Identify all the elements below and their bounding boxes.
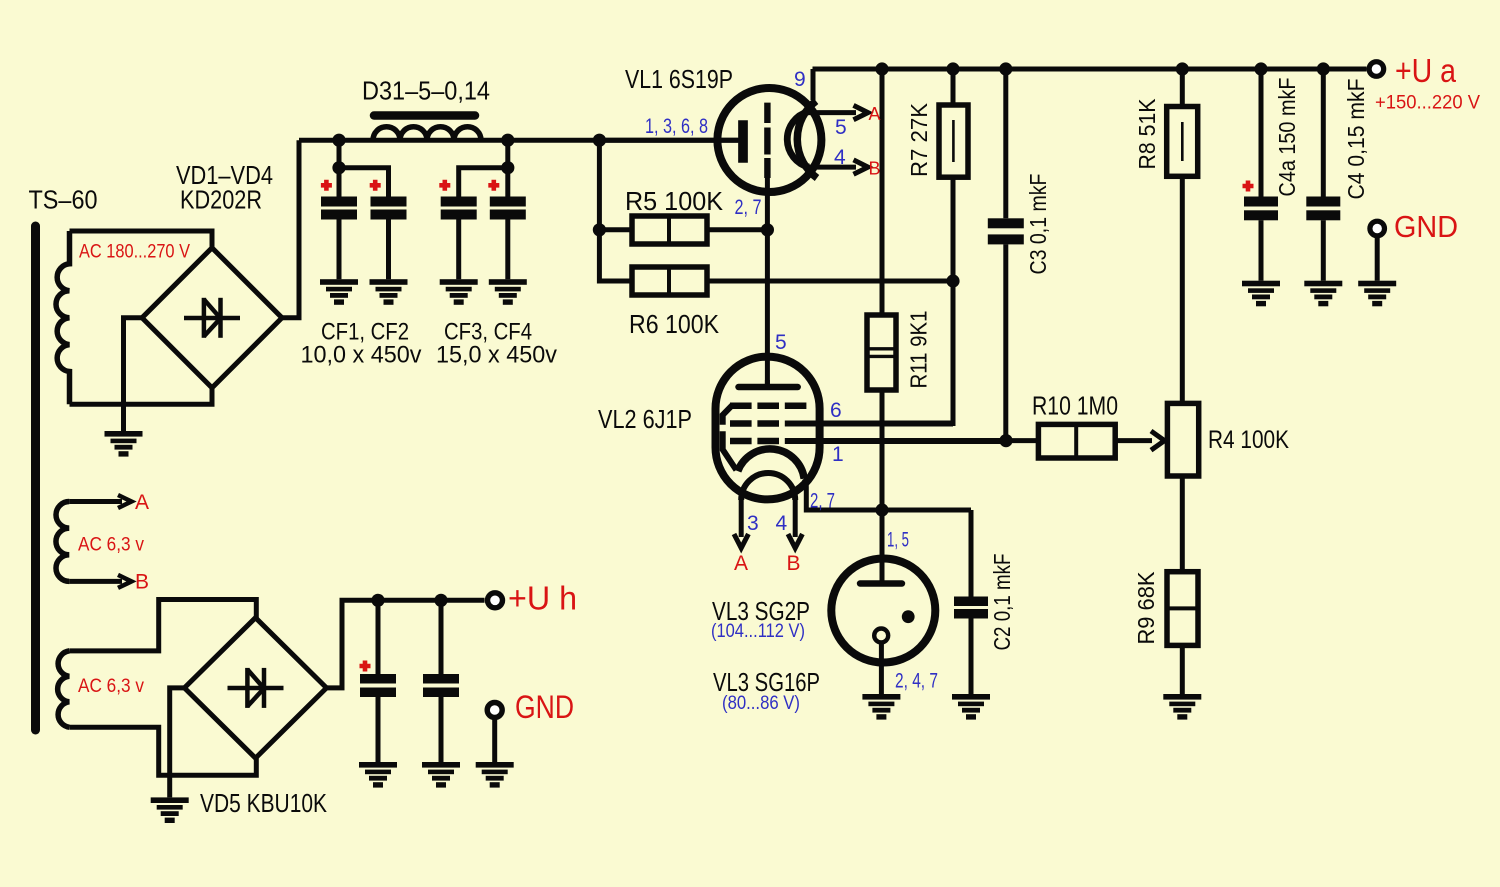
terminal +Ua: [1369, 62, 1384, 77]
wire R5 left lead: [599, 227, 632, 232]
junction bus: [1176, 62, 1189, 75]
resistor R5: [632, 216, 707, 244]
wire CF3 branch: [459, 168, 508, 197]
resistor R11: [867, 315, 896, 390]
heater winding for VD5: [58, 651, 70, 727]
svg-text:2, 4, 7: 2, 4, 7: [895, 670, 938, 693]
wire C2 top lead: [969, 510, 974, 597]
wire winding2 bottom to VD5: [69, 727, 256, 775]
resistor R9: [1167, 572, 1198, 646]
arrow A (VL1 heater): [854, 105, 869, 119]
svg-text:1: 1: [832, 443, 844, 466]
capacitor CF2: [371, 197, 407, 220]
tube VL3 envelope: [831, 559, 935, 663]
svg-text:R9 68K: R9 68K: [1133, 571, 1159, 645]
terminal GND (top): [1370, 221, 1385, 236]
wire C3 top lead: [1003, 69, 1008, 218]
junction R5 right: [761, 223, 774, 236]
svg-text:C2 0,1 mkF: C2 0,1 mkF: [989, 554, 1015, 651]
wire winding lead B: [69, 579, 122, 584]
ground (CF3): [440, 279, 478, 305]
svg-text:+U h: +U h: [508, 580, 577, 617]
polarity plus: [439, 180, 450, 191]
VL3 cathode circle: [874, 629, 888, 643]
svg-text:C3 0,1 mkF: C3 0,1 mkF: [1025, 174, 1051, 275]
svg-text:R10 1M0: R10 1M0: [1032, 391, 1118, 421]
svg-text:A: A: [135, 491, 149, 514]
junction: [332, 161, 345, 174]
wire VL1 pin 5 lead: [808, 110, 856, 115]
wire R6 right lead to R7 node: [707, 279, 953, 284]
wire VL2 pin 1 lead to R10 node: [785, 438, 1006, 444]
capacitor C4a: [1244, 197, 1278, 221]
arrow R10 wiper into R4: [1151, 431, 1165, 450]
capacitor CF4: [490, 197, 526, 220]
svg-text:4: 4: [776, 512, 788, 535]
wire R7 bottom lead down to VL2 pin 6: [806, 177, 953, 423]
polarity plus C4a: [1243, 181, 1254, 192]
svg-text:B: B: [787, 552, 801, 575]
svg-text:A: A: [869, 104, 881, 124]
wire VD5 minus to ground: [170, 688, 185, 798]
capacitor C3: [988, 218, 1024, 244]
svg-text:GND: GND: [1394, 209, 1458, 244]
svg-text:R8 51K: R8 51K: [1134, 98, 1160, 170]
capacitor CF (Uh electrolytic): [360, 674, 396, 697]
diode symbol VD5: [228, 668, 284, 708]
wire VL3 cathode pins 2,4,7 to ground: [879, 643, 884, 695]
svg-text:3: 3: [747, 512, 759, 535]
transformer TS-60 core: [31, 226, 40, 730]
svg-text:VL2 6J1P: VL2 6J1P: [598, 404, 692, 434]
ground (C4): [1304, 281, 1342, 307]
wire R9 to ground: [1180, 645, 1185, 694]
arrow B: [118, 575, 132, 588]
svg-text:+U a: +U a: [1395, 52, 1457, 89]
wire Uh cap1 to ground: [376, 697, 381, 762]
svg-text:A: A: [734, 552, 748, 575]
svg-text:VD5 KBU10K: VD5 KBU10K: [200, 788, 328, 818]
wire R10 right lead: [1115, 438, 1152, 443]
svg-text:1, 5: 1, 5: [887, 529, 909, 552]
wire R4 to R9: [1180, 476, 1185, 572]
wire VL2 cathode lead to node: [804, 479, 971, 510]
svg-text:(104...112 V): (104...112 V): [711, 621, 805, 642]
svg-text:R7 27K: R7 27K: [906, 102, 932, 177]
svg-text:10,0 x 450v: 10,0 x 450v: [301, 342, 422, 369]
ground (Uh cap1): [359, 762, 397, 788]
wire VL2 pin 3 lead: [739, 500, 744, 537]
svg-text:AC 6,3 v: AC 6,3 v: [78, 535, 144, 556]
ground (VL3): [862, 694, 900, 720]
wire bridge plus output up to filter: [282, 140, 299, 318]
junction R6/R7: [946, 274, 959, 287]
capacitor CF3: [441, 197, 477, 220]
wire node to VL1 anode: [599, 138, 738, 143]
resistor R6: [632, 267, 707, 295]
wire Uh cap1 lead: [376, 600, 381, 674]
svg-text:C4 0,15 mkF: C4 0,15 mkF: [1343, 79, 1369, 200]
junction bus: [1254, 62, 1267, 75]
ground (CF4): [489, 279, 527, 305]
svg-text:TS–60: TS–60: [29, 185, 98, 215]
wire VL1 grid lead down to VL2 anode: [765, 178, 770, 387]
VL2 heater arc pins 3,4: [741, 473, 795, 500]
svg-text:R11 9K1: R11 9K1: [906, 311, 932, 389]
wire VD5 plus to +Uh: [327, 600, 485, 688]
wire CF4 tap: [505, 140, 510, 196]
junction bus: [875, 62, 888, 75]
svg-text:9: 9: [794, 68, 806, 91]
wire CF4 to ground: [505, 220, 510, 280]
wire C2 bottom lead: [969, 619, 974, 695]
ground (bridge VD1-VD4): [105, 431, 143, 457]
wire R8 top lead: [1180, 69, 1185, 107]
ground (GND terminal): [1358, 281, 1396, 307]
wire VL2 pin 4 lead: [793, 500, 798, 537]
resistor R8: [1167, 107, 1198, 177]
inductor D31-5-0,14 winding: [373, 127, 481, 141]
wire Uh cap2 to ground: [439, 697, 444, 762]
bridge rectifier VD1-VD4 diamond: [142, 248, 282, 388]
ground (GND Uh terminal): [476, 762, 514, 788]
junction: [332, 134, 345, 147]
wire VL1 pin 9 to bus: [811, 69, 816, 100]
svg-text:AC 6,3 v: AC 6,3 v: [78, 676, 144, 697]
svg-text:B: B: [869, 159, 881, 179]
VL3 anode bar pins 1,5: [860, 580, 902, 586]
svg-text:VL1 6S19P: VL1 6S19P: [625, 64, 733, 94]
polarity plus: [488, 180, 499, 191]
VL2 grid row 1: [730, 403, 806, 410]
capacitor C2: [954, 597, 988, 619]
polarity plus: [321, 180, 332, 191]
wire primary top to bridge: [70, 231, 213, 248]
svg-text:2, 7: 2, 7: [810, 490, 835, 513]
ground (VD5): [151, 797, 189, 823]
wire CF2 to ground: [386, 220, 391, 280]
transformer primary winding: [56, 231, 70, 404]
VL1 heater arc pins 4,5: [787, 112, 809, 167]
svg-text:R5 100K: R5 100K: [625, 186, 724, 216]
wire C4a bottom lead: [1259, 220, 1264, 280]
wire VL2 pin 6 lead: [785, 421, 953, 427]
svg-text:15,0 x 450v: 15,0 x 450v: [436, 342, 557, 369]
tube VL1 envelope: [717, 88, 821, 192]
polarity plus (Uh cap): [360, 661, 371, 672]
svg-text:R4 100K: R4 100K: [1208, 426, 1289, 454]
VL2 cathode arc pins 2,7: [738, 449, 804, 479]
svg-text:GND: GND: [515, 689, 574, 725]
svg-text:2, 7: 2, 7: [735, 196, 762, 219]
wire GND terminal stem (Uh): [492, 718, 497, 762]
VL1 anode bar pins 1,3,6,8: [738, 120, 748, 163]
svg-text:6: 6: [830, 399, 842, 422]
arrow B (VL1 heater): [854, 160, 869, 174]
wire GND terminal stem: [1375, 238, 1380, 281]
VL1 grid pins 2,7: [764, 103, 770, 178]
junction bus: [999, 62, 1012, 75]
svg-text:5: 5: [835, 116, 847, 139]
wire primary bottom to bridge: [70, 388, 213, 405]
ground (R9): [1163, 694, 1201, 720]
wire winding2 top to VD5: [69, 600, 256, 651]
capacitor CF1: [321, 197, 357, 220]
resistor R4 (regulating): [1167, 403, 1198, 476]
heater winding A/B: [56, 502, 69, 582]
svg-text:+150...220 V: +150...220 V: [1375, 93, 1480, 114]
junction: [501, 161, 514, 174]
ground (Uh cap2): [422, 762, 460, 788]
bus +Ua wire: [813, 67, 1367, 72]
svg-text:C4a 150 mkF: C4a 150 mkF: [1274, 78, 1300, 197]
arrow B (VL2 heater): [788, 534, 802, 548]
VL2 anode bar pin 5: [739, 384, 798, 391]
wire R8 to R4: [1180, 176, 1185, 403]
svg-text:4: 4: [834, 146, 846, 169]
svg-text:R6 100K: R6 100K: [629, 309, 720, 339]
ground (CF1): [320, 279, 358, 305]
junction: [501, 134, 514, 147]
wire winding lead A: [69, 499, 122, 504]
capacitor (Uh film): [423, 674, 459, 697]
svg-text:D31–5–0,14: D31–5–0,14: [362, 76, 490, 106]
junction C3/R10/pin1: [999, 434, 1012, 447]
terminal +Uh: [488, 593, 503, 608]
VL2 grid left bracket: [723, 405, 737, 470]
junction VL2 cathode node: [875, 503, 888, 516]
junction R5 left: [593, 223, 606, 236]
wire CF2 branch: [339, 168, 389, 197]
junction Uh cap1: [371, 594, 384, 607]
wire CF1 tap: [337, 140, 342, 196]
wire C4 top lead: [1321, 69, 1326, 197]
wire C3 bottom lead: [1003, 244, 1008, 440]
inductor D31-5-0,14 core bar: [374, 111, 475, 120]
wire Uh cap2 lead: [439, 600, 444, 674]
svg-text:(80...86 V): (80...86 V): [722, 693, 800, 714]
diode symbol VD1-VD4: [184, 298, 240, 338]
svg-text:5: 5: [775, 331, 787, 354]
wire C4a top lead: [1259, 69, 1264, 197]
junction bus: [946, 62, 959, 75]
VL3 gas dot: [902, 610, 915, 623]
wire C4 bottom lead: [1321, 220, 1326, 280]
tube VL2 envelope: [716, 357, 820, 500]
wire R11 top lead: [880, 69, 885, 315]
wire VL1 pin 4 lead: [809, 165, 856, 170]
resistor R10: [1038, 424, 1115, 458]
junction Uh cap2: [434, 594, 447, 607]
ground (C4a): [1242, 281, 1280, 307]
junction bus: [1317, 62, 1330, 75]
main rectified wire: [299, 138, 739, 143]
wire VL2 anode lead: [765, 380, 770, 387]
wire R10 left lead: [1006, 438, 1038, 443]
wire R11 bottom lead: [880, 390, 885, 510]
bridge rectifier VD5 diamond: [184, 618, 326, 758]
polarity plus: [370, 180, 381, 191]
VL2 grid row 2 pin 6: [730, 420, 779, 427]
svg-text:KD202R: KD202R: [180, 185, 262, 215]
wire VL3 anode lead: [880, 510, 885, 584]
svg-text:AC 180...270 V: AC 180...270 V: [79, 242, 190, 263]
svg-text:1, 3, 6, 8: 1, 3, 6, 8: [645, 115, 708, 138]
resistor R7: [939, 105, 968, 177]
VL2 grid row 3 pin 1: [730, 438, 779, 445]
junction: [593, 134, 606, 147]
VL1 cathode arc pin 9: [797, 101, 817, 178]
arrow A: [118, 495, 132, 508]
wire CF3 to ground: [456, 220, 461, 280]
wire bridge minus to ground: [124, 318, 143, 431]
ground (CF2): [370, 279, 408, 305]
wire node down to R5/R6: [599, 140, 632, 281]
wire R5 right lead: [707, 227, 767, 232]
capacitor C4: [1306, 197, 1340, 221]
svg-text:B: B: [135, 571, 149, 594]
wire CF1 to ground: [337, 220, 342, 280]
wire R7 top lead: [951, 69, 956, 105]
ground (C2): [952, 694, 990, 720]
arrow A (VL2 heater): [734, 534, 748, 548]
terminal GND (Uh): [487, 703, 502, 718]
